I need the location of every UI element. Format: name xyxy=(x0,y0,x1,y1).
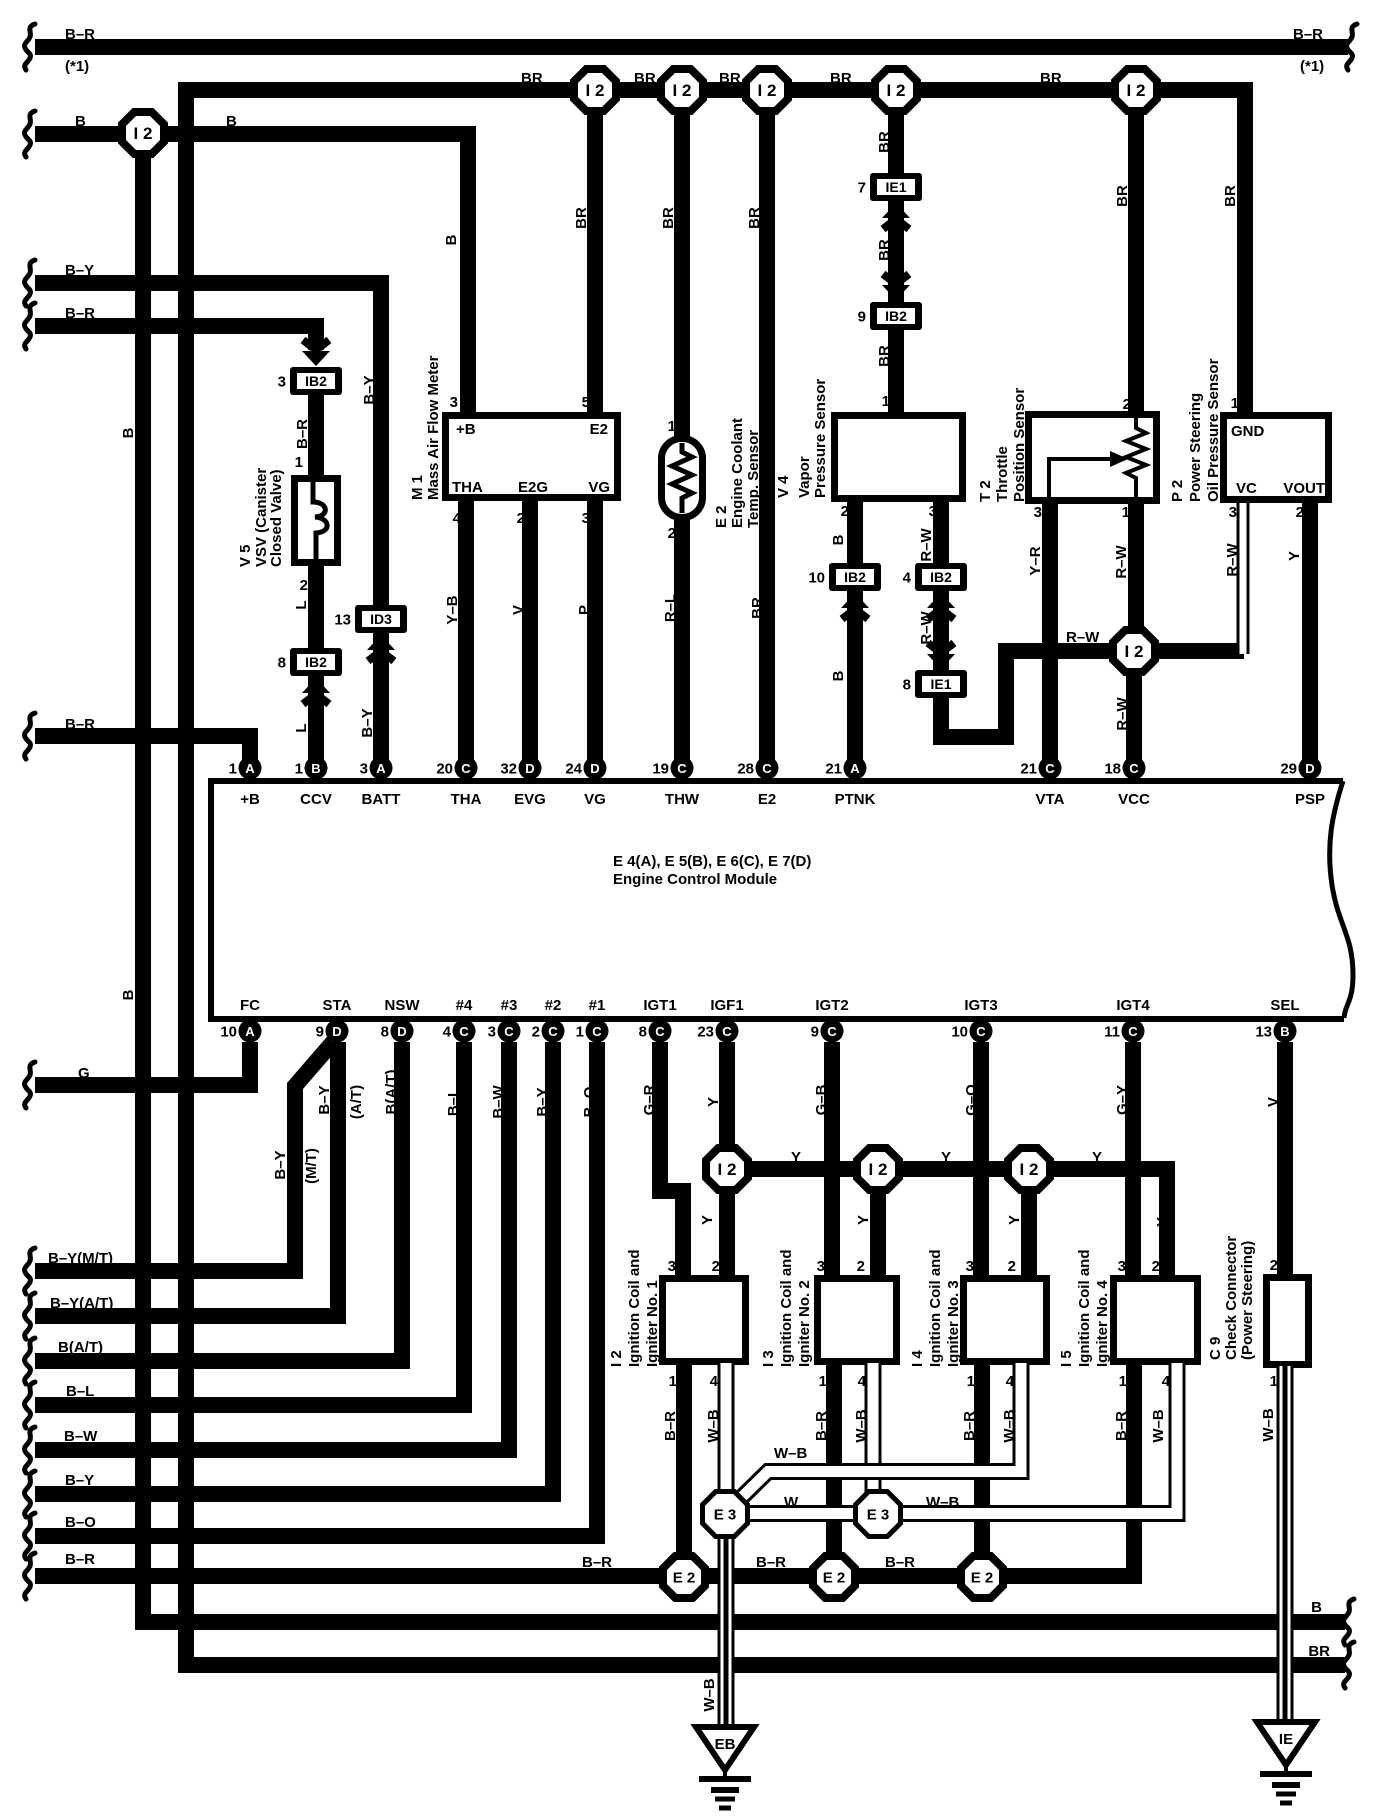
coolant sensor resistor xyxy=(672,443,692,513)
wire B left vertical to bottom B bus xyxy=(143,133,1345,1622)
svg-text:1: 1 xyxy=(819,1373,827,1390)
ECM pin THA 20(C) xyxy=(436,757,477,780)
ground IE xyxy=(1257,1722,1315,1803)
svg-text:B(A/T): B(A/T) xyxy=(58,1339,103,1356)
junction I2 top bus 3 xyxy=(746,69,788,111)
wire continuation mark 6 xyxy=(25,713,35,759)
wire continuation mark 15 xyxy=(25,1553,35,1599)
svg-text:Y–R: Y–R xyxy=(1027,546,1044,575)
svg-text:18: 18 xyxy=(1104,761,1121,778)
ECM pin VG 24(D) xyxy=(565,757,606,780)
ignition coil and igniter no.2 I3 box xyxy=(818,1279,897,1362)
ECM pin E2 28(C) xyxy=(737,757,778,780)
svg-text:BR: BR xyxy=(876,239,893,261)
svg-text:B–Y: B–Y xyxy=(361,375,378,404)
svg-text:I 4: I 4 xyxy=(909,1350,926,1367)
junction E2 ground 1 xyxy=(663,1556,705,1598)
svg-text:Y–B: Y–B xyxy=(444,595,461,624)
svg-text:C: C xyxy=(461,761,471,776)
svg-text:BR: BR xyxy=(1222,185,1239,207)
wire B from IB2 10 to PTNK xyxy=(847,589,863,768)
svg-text:B–L: B–L xyxy=(445,1088,462,1116)
svg-text:9: 9 xyxy=(858,309,866,326)
svg-text:3: 3 xyxy=(582,510,590,527)
svg-text:B–R: B–R xyxy=(813,1411,830,1441)
svg-text:P: P xyxy=(576,605,593,615)
junction box IB2 8 xyxy=(278,648,342,676)
svg-text:4: 4 xyxy=(1162,1373,1171,1390)
wire W-B from check connector pin 1 to IE ground xyxy=(1277,1366,1294,1725)
svg-text:+B: +B xyxy=(240,791,260,808)
svg-text:I 2: I 2 xyxy=(586,81,605,100)
engine control module ECM box xyxy=(211,781,1344,1019)
svg-text:4: 4 xyxy=(453,510,462,527)
svg-text:B–R: B–R xyxy=(65,26,95,43)
svg-text:W–B: W–B xyxy=(1001,1409,1018,1443)
svg-text:EVG: EVG xyxy=(514,791,546,808)
wire continuation mark 16 xyxy=(1344,1599,1354,1645)
wire W between E3 junctions xyxy=(745,1505,858,1522)
svg-text:B–R: B–R xyxy=(1113,1411,1130,1441)
svg-text:BATT: BATT xyxy=(362,791,401,808)
svg-text:B: B xyxy=(443,234,460,245)
svg-text:8: 8 xyxy=(278,655,286,672)
svg-text:G–O: G–O xyxy=(963,1084,980,1116)
svg-text:E 2: E 2 xyxy=(971,1569,994,1586)
svg-text:G–B: G–B xyxy=(813,1084,830,1115)
wire B-R igniter 2 pin 1 to E2 junction xyxy=(826,1363,842,1576)
svg-text:2: 2 xyxy=(300,577,308,594)
wire B-R igniter 3 pin 1 to E2 junction xyxy=(974,1363,990,1576)
ignition coil and igniter no.1 I2 box xyxy=(663,1279,746,1362)
junction I2 R-W xyxy=(1113,630,1155,672)
svg-text:B–R: B–R xyxy=(961,1411,978,1441)
svg-text:E 3: E 3 xyxy=(867,1506,890,1523)
svg-text:3: 3 xyxy=(929,503,937,520)
svg-text:Y: Y xyxy=(791,1149,801,1166)
svg-text:IB2: IB2 xyxy=(844,569,866,585)
ECM pin EVG 32(D) xyxy=(500,757,541,780)
power steering oil pressure sensor P2 box xyxy=(1224,416,1329,500)
svg-text:5: 5 xyxy=(582,394,590,411)
svg-text:R–W: R–W xyxy=(1066,629,1100,646)
wire R-L coolant sensor pin 2 to THW xyxy=(674,516,690,768)
svg-text:3: 3 xyxy=(966,1258,974,1275)
svg-text:1: 1 xyxy=(1122,504,1130,521)
svg-text:1: 1 xyxy=(295,761,303,778)
svg-text:BR: BR xyxy=(830,70,852,87)
wire continuation mark 1 xyxy=(25,24,35,70)
svg-text:2: 2 xyxy=(668,525,676,542)
svg-text:IGF1: IGF1 xyxy=(710,997,743,1014)
svg-text:10: 10 xyxy=(951,1024,968,1041)
svg-text:(*1): (*1) xyxy=(65,58,89,75)
svg-text:G–R: G–R xyxy=(641,1084,658,1115)
junction box IB2 4 xyxy=(903,563,967,591)
ECM pin STA 9(D) xyxy=(316,1020,349,1043)
svg-text:A: A xyxy=(245,761,255,776)
svg-text:Pressure Sensor: Pressure Sensor xyxy=(812,379,829,498)
svg-text:4: 4 xyxy=(903,570,912,587)
svg-text:Y: Y xyxy=(1006,1215,1023,1225)
junction I2 top bus 4 xyxy=(875,69,917,111)
wire continuation mark 10 xyxy=(25,1338,35,1384)
svg-text:Y: Y xyxy=(855,1215,872,1225)
svg-text:B–R: B–R xyxy=(662,1411,679,1441)
wire G-Y IGT4 to igniter 4 pin 3 xyxy=(1125,1042,1141,1277)
TPS resistor and wiper xyxy=(1126,418,1146,497)
svg-text:19: 19 xyxy=(652,761,669,778)
arrow into IE1 8 xyxy=(927,643,955,669)
ECM pin NSW 8(D) xyxy=(381,1020,414,1043)
ECM pin PSP 29(D) xyxy=(1280,757,1321,780)
svg-text:3: 3 xyxy=(1229,504,1237,521)
ECM pin VCC 18(C) xyxy=(1104,757,1145,780)
svg-text:C: C xyxy=(548,1024,558,1039)
svg-text:10: 10 xyxy=(220,1024,237,1041)
ground EB xyxy=(696,1727,754,1808)
svg-text:THW: THW xyxy=(665,791,700,808)
vapor pressure sensor V4 box xyxy=(835,416,963,499)
svg-text:A: A xyxy=(245,1024,255,1039)
svg-text:B: B xyxy=(830,534,847,545)
wire BR between IE1 and IB2 connectors xyxy=(888,198,904,304)
svg-text:E 2: E 2 xyxy=(823,1569,846,1586)
svg-text:E 2: E 2 xyxy=(713,505,730,528)
arrow into ID3 13 xyxy=(367,635,395,661)
svg-text:B–R: B–R xyxy=(65,305,95,322)
svg-text:3: 3 xyxy=(450,394,458,411)
svg-text:Engine Control Module: Engine Control Module xyxy=(613,871,777,888)
wire W-B igniter 4 pin 4 bus to E3 2 xyxy=(900,1363,1177,1514)
arrow into IE1 7 xyxy=(882,203,910,229)
svg-text:2: 2 xyxy=(1152,1258,1160,1275)
svg-text:GND: GND xyxy=(1231,423,1265,440)
svg-text:(A/T): (A/T) xyxy=(348,1085,365,1119)
svg-text:(*1): (*1) xyxy=(1300,58,1324,75)
svg-text:C: C xyxy=(1128,1024,1138,1039)
svg-text:1: 1 xyxy=(229,761,237,778)
svg-text:13: 13 xyxy=(1255,1024,1272,1041)
svg-text:Check Connector: Check Connector xyxy=(1223,1236,1240,1360)
svg-text:E 3: E 3 xyxy=(714,1506,737,1523)
ECM pin FC 10(A) xyxy=(220,1020,261,1043)
svg-text:B–Y: B–Y xyxy=(272,1150,289,1179)
wire BR from I2 to IE1 connector 7 xyxy=(888,90,904,176)
svg-text:#4: #4 xyxy=(456,997,473,1014)
throttle position sensor T2 box xyxy=(1029,415,1157,501)
svg-text:V 5: V 5 xyxy=(237,544,254,567)
svg-text:D: D xyxy=(525,761,534,776)
svg-text:B–R: B–R xyxy=(294,419,311,449)
svg-text:10: 10 xyxy=(808,570,825,587)
svg-text:Position Sensor: Position Sensor xyxy=(1011,388,1028,502)
svg-text:4: 4 xyxy=(710,1373,719,1390)
svg-text:I 2: I 2 xyxy=(758,81,777,100)
svg-text:R–W: R–W xyxy=(1224,542,1241,576)
svg-text:#3: #3 xyxy=(501,997,518,1014)
svg-text:B: B xyxy=(120,427,137,438)
svg-text:W–B: W–B xyxy=(853,1409,870,1443)
svg-text:2: 2 xyxy=(841,503,849,520)
ECM pin IGT3 10(C) xyxy=(951,1020,992,1043)
svg-text:9: 9 xyxy=(811,1024,819,1041)
svg-text:2: 2 xyxy=(1008,1258,1016,1275)
svg-text:E2: E2 xyxy=(758,791,776,808)
svg-text:3: 3 xyxy=(278,374,286,391)
junction I2 Y bus 3 xyxy=(1008,1148,1050,1190)
svg-text:C: C xyxy=(762,761,772,776)
svg-text:PSP: PSP xyxy=(1295,791,1325,808)
svg-text:B: B xyxy=(1311,1599,1322,1616)
wire Y-B THA / V E2G / P VG from MAF to ECM xyxy=(458,499,474,768)
svg-text:B: B xyxy=(1280,1024,1289,1039)
svg-text:BR: BR xyxy=(746,207,763,229)
wire R-W from I2 junction to VCC xyxy=(1126,651,1142,768)
svg-text:(Power Steering): (Power Steering) xyxy=(1239,1241,1256,1360)
svg-text:Y: Y xyxy=(1092,1149,1102,1166)
svg-text:Mass Air Flow Meter: Mass Air Flow Meter xyxy=(425,355,442,500)
ECM pin BATT 3(A) xyxy=(360,757,393,780)
wire B-R row to junction IB2 xyxy=(35,326,316,350)
svg-text:Ignition Coil and: Ignition Coil and xyxy=(927,1250,944,1367)
svg-text:8: 8 xyxy=(903,677,911,694)
svg-text:G–Y: G–Y xyxy=(1114,1085,1131,1115)
svg-text:BR: BR xyxy=(1308,1643,1330,1660)
ECM pin IGT1 8(C) xyxy=(639,1020,672,1043)
svg-text:1: 1 xyxy=(882,393,890,410)
arrow into IB2 9 xyxy=(882,274,910,300)
svg-text:#2: #2 xyxy=(545,997,562,1014)
arrow into IB2 10 xyxy=(841,593,869,619)
svg-text:1: 1 xyxy=(669,1373,677,1390)
svg-text:SEL: SEL xyxy=(1270,997,1299,1014)
svg-text:R–W: R–W xyxy=(1114,696,1131,730)
svg-text:Ignition Coil and: Ignition Coil and xyxy=(778,1250,795,1367)
svg-text:C: C xyxy=(976,1024,986,1039)
arrow into IB2 4 xyxy=(927,593,955,619)
svg-text:I 2: I 2 xyxy=(673,81,692,100)
svg-text:B–Y: B–Y xyxy=(65,262,94,279)
svg-text:BR: BR xyxy=(876,131,893,153)
svg-text:2: 2 xyxy=(712,1258,720,1275)
svg-text:#1: #1 xyxy=(589,997,606,1014)
svg-text:1: 1 xyxy=(1270,1373,1278,1390)
svg-text:C 9: C 9 xyxy=(1207,1337,1224,1360)
ECM pin THW 19(C) xyxy=(652,757,693,780)
svg-text:PTNK: PTNK xyxy=(835,791,876,808)
svg-text:2: 2 xyxy=(1270,1257,1278,1274)
wire Y-R TPS pin 3 to VTA xyxy=(1042,502,1058,768)
svg-text:B–W: B–W xyxy=(490,1084,507,1118)
ECM pin IGT4 11(C) xyxy=(1104,1020,1144,1043)
junction box IB2 3 xyxy=(278,367,342,395)
svg-text:BR: BR xyxy=(719,70,741,87)
ECM pin IGT2 9(C) xyxy=(811,1020,844,1043)
svg-text:2: 2 xyxy=(1296,504,1304,521)
wire continuation mark 3 xyxy=(25,111,35,157)
wire B-O row to #1 xyxy=(35,1042,597,1536)
wire W-B igniter 3 pin 4 bus to E3 xyxy=(740,1363,1021,1499)
wire B-Y row to ID3 xyxy=(35,283,381,606)
svg-text:R–W: R–W xyxy=(1113,544,1130,578)
wire BR from I2 to MAF E2 pin 5 xyxy=(587,90,603,414)
wire continuation mark 14 xyxy=(25,1513,35,1559)
svg-text:20: 20 xyxy=(436,761,453,778)
svg-text:Igniter No. 1: Igniter No. 1 xyxy=(644,1280,661,1367)
VSV coil symbol xyxy=(313,482,327,560)
svg-text:B–R: B–R xyxy=(65,716,95,733)
svg-text:VTA: VTA xyxy=(1036,791,1065,808)
junction E2 ground 3 xyxy=(961,1556,1003,1598)
svg-text:W–B: W–B xyxy=(774,1445,808,1462)
svg-text:B–Y(M/T): B–Y(M/T) xyxy=(48,1250,113,1267)
svg-text:1: 1 xyxy=(967,1373,975,1390)
svg-text:Igniter No. 2: Igniter No. 2 xyxy=(796,1280,813,1367)
wire B top row through I2 to Mass Air Flow Meter +B xyxy=(35,134,468,412)
svg-text:R–W: R–W xyxy=(918,527,935,561)
svg-text:M 1: M 1 xyxy=(409,475,426,500)
svg-text:28: 28 xyxy=(737,761,754,778)
ECM pin #2 2(C) xyxy=(532,1020,565,1043)
svg-text:VC: VC xyxy=(1236,480,1257,497)
svg-text:3: 3 xyxy=(817,1258,825,1275)
svg-text:P 2: P 2 xyxy=(1169,480,1186,502)
ECM pin PTNK 21(A) xyxy=(825,757,866,780)
wire continuation mark 5 xyxy=(25,303,35,349)
svg-text:I 2: I 2 xyxy=(608,1350,625,1367)
wire BR from IB2 to vapor pressure sensor pin 1 xyxy=(888,328,904,414)
svg-text:3: 3 xyxy=(360,761,368,778)
svg-text:21: 21 xyxy=(825,761,842,778)
wire Y bus to igniter pin 2s xyxy=(727,1169,1167,1277)
junction box IB2 9 xyxy=(858,302,922,330)
wire B vapor sensor pin 2 to IB2 10 xyxy=(847,500,863,565)
svg-text:8: 8 xyxy=(639,1024,647,1041)
svg-text:IGT4: IGT4 xyxy=(1116,997,1150,1014)
svg-text:I 3: I 3 xyxy=(760,1350,777,1367)
wire B-Y row to #2 xyxy=(35,1042,553,1494)
svg-text:B–R: B–R xyxy=(756,1554,786,1571)
svg-text:V 4: V 4 xyxy=(775,475,792,498)
svg-text:C: C xyxy=(1129,761,1139,776)
svg-text:Oil Pressure Sensor: Oil Pressure Sensor xyxy=(1205,358,1222,502)
svg-text:Vapor: Vapor xyxy=(796,456,813,498)
svg-text:D: D xyxy=(590,761,599,776)
svg-text:I 2: I 2 xyxy=(718,1160,737,1179)
wire continuation mark 12 xyxy=(25,1427,35,1473)
svg-text:4: 4 xyxy=(443,1024,452,1041)
junction box IE1 7 xyxy=(858,173,922,201)
svg-text:BR: BR xyxy=(521,70,543,87)
svg-text:8: 8 xyxy=(381,1024,389,1041)
svg-text:L: L xyxy=(293,600,310,609)
wire B-R igniter 1 pin 1 to E2 junction xyxy=(676,1363,692,1576)
svg-text:W–B: W–B xyxy=(701,1678,718,1712)
svg-text:E 4(A), E 5(B), E 6(C), E 7(D): E 4(A), E 5(B), E 6(C), E 7(D) xyxy=(613,853,811,870)
wire continuation mark 9 xyxy=(25,1293,35,1339)
svg-text:B–O: B–O xyxy=(581,1086,598,1117)
wire continuation mark 7 xyxy=(25,1062,35,1108)
svg-text:E 2: E 2 xyxy=(673,1569,696,1586)
ECM pin VTA 21(C) xyxy=(1020,757,1061,780)
svg-text:BR: BR xyxy=(1040,70,1062,87)
wire G-O IGT3 to igniter 3 pin 3 xyxy=(973,1042,989,1277)
svg-text:I 5: I 5 xyxy=(1058,1350,1075,1367)
wire G-R IGT1 to igniter 1 pin 3 xyxy=(660,1042,683,1277)
ECM pin #3 3(C) xyxy=(488,1020,521,1043)
svg-text:9: 9 xyxy=(316,1024,324,1041)
svg-text:11: 11 xyxy=(1104,1024,1120,1041)
svg-text:E2: E2 xyxy=(590,421,608,438)
svg-text:B: B xyxy=(830,670,847,681)
svg-text:D: D xyxy=(332,1024,341,1039)
wire continuation mark 13 xyxy=(25,1471,35,1517)
wire W-B from E3 to EB ground xyxy=(718,1535,735,1730)
svg-text:Y: Y xyxy=(1286,551,1303,561)
svg-text:IGT1: IGT1 xyxy=(643,997,676,1014)
wire B-R row to E2 ground bus and coil 4 pin 1 xyxy=(35,1365,1134,1576)
svg-text:THA: THA xyxy=(452,479,483,496)
svg-text:3: 3 xyxy=(1034,504,1042,521)
svg-text:R–L: R–L xyxy=(662,594,679,622)
svg-text:V: V xyxy=(510,605,527,615)
svg-text:W–B: W–B xyxy=(705,1409,722,1443)
svg-text:C: C xyxy=(827,1024,837,1039)
svg-text:E2G: E2G xyxy=(518,479,548,496)
svg-text:VCC: VCC xyxy=(1118,791,1150,808)
ECM pin +B 1(A) xyxy=(229,757,262,780)
svg-text:IB2: IB2 xyxy=(305,373,327,389)
wire G-B IGT2 to igniter 2 pin 3 xyxy=(824,1042,840,1277)
VSV canister closed valve V5 box xyxy=(295,479,338,563)
svg-text:I 2: I 2 xyxy=(1020,1160,1039,1179)
svg-text:Throttle: Throttle xyxy=(994,446,1011,502)
wire W-B igniter 2 pin 4 to E3 xyxy=(865,1363,882,1495)
svg-text:2: 2 xyxy=(532,1024,540,1041)
svg-text:I 2: I 2 xyxy=(887,81,906,100)
wire continuation mark 11 xyxy=(25,1382,35,1428)
svg-text:(M/T): (M/T) xyxy=(303,1148,320,1184)
wire Y P2 VOUT pin 2 to PSP xyxy=(1302,501,1318,768)
junction I2 top bus 5 xyxy=(1115,69,1157,111)
wire B-W row to #3 xyxy=(35,1042,509,1450)
svg-text:BR: BR xyxy=(634,70,656,87)
svg-text:IE1: IE1 xyxy=(885,179,906,195)
svg-text:3: 3 xyxy=(488,1024,496,1041)
ignition coil and igniter no.3 I4 box xyxy=(964,1279,1047,1362)
svg-text:B: B xyxy=(75,113,86,130)
svg-text:C: C xyxy=(504,1024,514,1039)
svg-text:W–B: W–B xyxy=(926,1494,960,1511)
svg-text:Y: Y xyxy=(1154,1217,1171,1227)
junction E3 2 xyxy=(856,1492,901,1537)
svg-text:4: 4 xyxy=(1006,1373,1015,1390)
svg-text:R–W: R–W xyxy=(918,610,935,644)
svg-text:B–Y(A/T): B–Y(A/T) xyxy=(50,1295,113,1312)
svg-text:B: B xyxy=(311,761,320,776)
wire W-B igniter 1 pin 4 to E3 xyxy=(718,1363,735,1495)
svg-text:24: 24 xyxy=(565,761,582,778)
svg-text:STA: STA xyxy=(323,997,352,1014)
svg-text:Y: Y xyxy=(941,1149,951,1166)
svg-text:13: 13 xyxy=(334,612,351,629)
svg-text:D: D xyxy=(397,1024,406,1039)
svg-text:1: 1 xyxy=(1119,1373,1127,1390)
svg-text:3: 3 xyxy=(1118,1258,1126,1275)
wire B-R row to ECM +B xyxy=(35,736,250,768)
wire Y IGF1 through E3? I2 junction to igniter 1 pin 2 xyxy=(719,1042,735,1277)
